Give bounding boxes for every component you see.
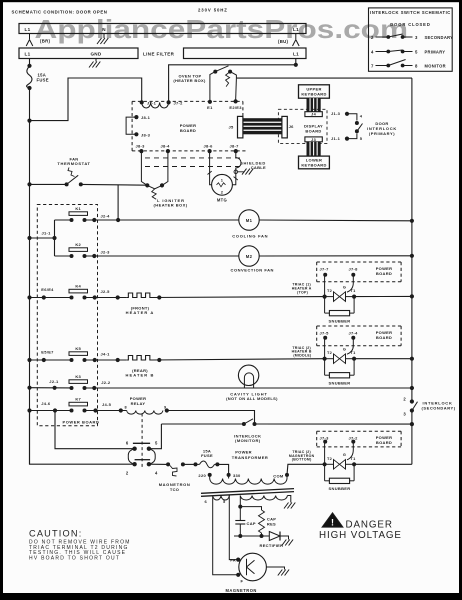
fan thermostat switch	[57, 157, 90, 187]
svg-text:GND: GND	[90, 52, 101, 57]
lamp cavity light	[226, 365, 278, 401]
svg-text:(PRIMARY): (PRIMARY)	[369, 131, 395, 136]
svg-text:THERMOSTAT: THERMOSTAT	[57, 161, 90, 166]
motor M1 cooling fan	[232, 210, 268, 239]
svg-text:(SECONDARY): (SECONDARY)	[422, 406, 456, 411]
snubber for triac 2 heater B	[325, 359, 355, 386]
thermal cutout MAGNETRON TCO	[159, 462, 191, 492]
display board dashed box	[278, 109, 327, 143]
caution text block	[29, 529, 131, 562]
svg-text:J1-1: J1-1	[42, 231, 52, 236]
svg-text:!: !	[331, 517, 334, 527]
igniter wires from J8-3 and J8-4	[141, 151, 147, 185]
svg-text:E6/E4: E6/E4	[41, 287, 54, 292]
wire M1 to right bus	[259, 219, 412, 222]
wire left bus J1-1 feeder	[30, 237, 55, 239]
fuse 15A (HV)	[200, 461, 215, 468]
svg-text:J2-1: J2-1	[49, 379, 59, 384]
svg-text:J7-7: J7-7	[320, 266, 330, 271]
svg-text:G: G	[343, 346, 346, 351]
resistor heater A (front)	[126, 293, 152, 298]
svg-text:(NOT ON ALL MODELS): (NOT ON ALL MODELS)	[226, 396, 278, 401]
danger high voltage warning	[319, 513, 402, 541]
svg-text:(MONITOR): (MONITOR)	[235, 438, 261, 443]
svg-text:BOARD: BOARD	[376, 335, 392, 340]
lower keyboard ribbon cable	[307, 142, 321, 156]
svg-text:SNUBBER: SNUBBER	[329, 380, 351, 385]
svg-text:(HEATER BOX): (HEATER BOX)	[173, 78, 206, 83]
wire K3 to cavity light	[85, 387, 412, 389]
svg-text:HEATER B: HEATER B	[126, 373, 155, 378]
terminal (BR) with connector arrow	[29, 34, 31, 40]
node J8-4	[166, 149, 170, 153]
svg-text:CAUTION:: CAUTION:	[29, 529, 83, 539]
svg-text:5: 5	[415, 50, 418, 55]
wire left bus to igniter (fan row)	[30, 183, 67, 185]
display ribbon cable J5-J6	[229, 116, 295, 137]
svg-text:J8-3: J8-3	[141, 132, 151, 137]
svg-text:8: 8	[125, 405, 127, 409]
line filter box left section L1-GND	[19, 48, 138, 59]
svg-text:G: G	[343, 284, 346, 289]
wire filament 6 to magnetron F	[213, 496, 239, 575]
resistor CAP RES	[240, 507, 276, 536]
transformer filament winding 6-5	[205, 496, 230, 505]
wire heater A to triac 1	[152, 296, 324, 299]
wire triac 3 to right bus corner	[354, 463, 412, 465]
svg-text:J7-3: J7-3	[320, 436, 330, 441]
terminal (BU) with connector arrow	[295, 34, 297, 40]
node J7-2	[167, 100, 171, 104]
interlock schematic row PRIMARY pins 4-5	[371, 50, 445, 55]
svg-text:3: 3	[415, 35, 418, 40]
svg-text:J6: J6	[289, 124, 295, 129]
bus bar L1-N-L1 (line input)	[19, 24, 306, 34]
svg-text:6: 6	[126, 441, 129, 446]
triac triac 1 heater A	[323, 275, 357, 302]
interlock (monitor) switch	[161, 419, 261, 443]
wire J1-1 vertical to K1 K2	[54, 220, 56, 256]
right bus vertical	[411, 78, 413, 401]
wire K2 to J2-3	[85, 255, 239, 257]
wire fuse to transformer 330 tap	[217, 464, 228, 475]
relay K4 contact	[69, 289, 88, 293]
svg-text:8: 8	[415, 64, 418, 69]
relay K3 contact	[69, 380, 88, 384]
nodes J8-1 J8-3 with jumper	[126, 115, 151, 137]
svg-text:J4-6: J4-6	[41, 401, 51, 406]
svg-text:K7: K7	[75, 397, 81, 402]
svg-text:K2: K2	[75, 242, 81, 247]
resistor heater B (rear)	[126, 356, 152, 361]
wire left bus to relay contact 2	[30, 411, 135, 465]
svg-text:J4: J4	[311, 113, 316, 117]
fuse 15A (left bus)	[27, 66, 32, 88]
svg-text:J8-6: J8-6	[204, 144, 214, 149]
svg-text:DANGER: DANGER	[346, 519, 393, 530]
svg-text:MONITOR: MONITOR	[425, 64, 446, 69]
svg-text:L1: L1	[25, 27, 31, 32]
snubber for triac 3 magnetron	[325, 464, 355, 491]
power board dashed box J7-5 J7-4	[317, 326, 401, 346]
interlock switch schematic box	[369, 8, 453, 71]
wire left bus to power board J7-1	[30, 78, 142, 121]
svg-text:J3: J3	[311, 138, 316, 142]
wire left bus to K4	[30, 297, 72, 299]
thermostat OVEN TOP (HEATER BOX)	[173, 66, 236, 102]
transformer primary winding	[210, 479, 287, 485]
right bus lower section	[411, 411, 413, 465]
svg-text:COOLING FAN: COOLING FAN	[232, 234, 268, 239]
svg-text:J2-3: J2-3	[101, 250, 111, 255]
inductor line-filter coil J7-1 to J7-2	[142, 102, 169, 108]
svg-text:F: F	[241, 579, 244, 584]
svg-text:(HEATER BOX): (HEATER BOX)	[154, 203, 188, 208]
wire monitor to right bus	[255, 423, 412, 425]
svg-text:230V 50HZ: 230V 50HZ	[198, 7, 228, 12]
svg-text:AppliancePartsPros.com: AppliancePartsPros.com	[35, 16, 409, 44]
svg-text:FUSE: FUSE	[201, 453, 213, 458]
turntable motor MTG	[212, 174, 233, 202]
svg-text:RELAY: RELAY	[131, 401, 146, 406]
lower keyboard box	[299, 156, 330, 169]
relay K7 contact	[69, 402, 88, 406]
wire K4 to heater A	[85, 297, 127, 299]
shielded cable wire J8-7 to motor	[232, 151, 241, 185]
svg-text:KEYBOARD: KEYBOARD	[301, 92, 326, 97]
svg-text:J7-1: J7-1	[147, 100, 157, 105]
svg-text:J8-7: J8-7	[230, 144, 240, 149]
svg-text:RES: RES	[267, 521, 276, 526]
svg-text:4: 4	[371, 50, 374, 55]
capacitor CAP	[235, 507, 256, 536]
svg-text:J7-4: J7-4	[349, 330, 359, 335]
line filter box right section L1	[184, 48, 307, 59]
svg-text:SNUBBER: SNUBBER	[329, 318, 351, 323]
upper keyboard box	[299, 85, 330, 98]
power board relay dashed box	[37, 205, 97, 426]
connector J4	[305, 112, 322, 117]
interlock (secondary) switch pins 2-3	[403, 396, 455, 416]
svg-text:(BU): (BU)	[278, 39, 289, 44]
svg-text:(BOTTOM): (BOTTOM)	[292, 457, 312, 461]
svg-text:PRIMARY: PRIMARY	[425, 50, 446, 55]
ground at N	[103, 34, 105, 39]
left bus wire	[29, 88, 31, 464]
triac triac 2 heater B	[323, 338, 357, 364]
svg-text:SNUBBER: SNUBBER	[329, 486, 351, 491]
door interlock (primary) switch pins 4-5	[347, 113, 397, 141]
transformer HV winding	[240, 496, 287, 501]
svg-text:INTERLOCK SWITCH SCHEMATIC: INTERLOCK SWITCH SCHEMATIC	[370, 10, 451, 15]
magnetron	[226, 553, 267, 593]
svg-text:T2: T2	[327, 288, 333, 293]
svg-text:T1: T1	[351, 350, 357, 355]
interlock schematic row MONITOR pins 7-8	[371, 60, 446, 69]
svg-text:CONVECTION FAN: CONVECTION FAN	[231, 267, 274, 272]
svg-text:M1: M1	[246, 218, 253, 223]
svg-text:J2-4: J2-4	[101, 214, 111, 219]
svg-text:T1: T1	[351, 456, 357, 461]
node J8-6	[208, 149, 212, 153]
relay K2 contact	[69, 248, 88, 252]
svg-text:K5: K5	[75, 346, 81, 351]
svg-text:J4-1: J4-1	[101, 352, 111, 357]
wire contact 5 up to monitor row	[149, 424, 162, 449]
wire L1 from line filter down	[295, 59, 297, 65]
svg-text:T2: T2	[327, 456, 333, 461]
wire cap bottom row	[234, 535, 269, 537]
wire triac 1 to right bus	[354, 295, 412, 297]
svg-text:SECONDARY: SECONDARY	[425, 35, 454, 40]
wire M2 to right bus	[259, 255, 412, 257]
svg-text:J7-2: J7-2	[174, 100, 184, 105]
relay K1 contact	[69, 212, 88, 216]
wire COM riser to triac 3	[287, 464, 325, 475]
svg-text:J7-8: J7-8	[349, 266, 359, 271]
wire left bus to K3	[30, 387, 72, 389]
svg-text:T1: T1	[351, 288, 357, 293]
node J7-1	[140, 100, 144, 104]
node J8-3 (bottom row)	[139, 149, 143, 153]
rectifier ground	[280, 536, 289, 540]
svg-text:TRANSFORMER: TRANSFORMER	[232, 455, 269, 460]
wire filament 5 to magnetron FA	[229, 496, 238, 560]
svg-text:N: N	[102, 27, 106, 32]
svg-text:M2: M2	[246, 254, 253, 259]
svg-text:HEATER A: HEATER A	[126, 310, 155, 315]
wire J8-6 to turntable motor	[210, 151, 212, 185]
svg-text:SCHEMATIC CONDITION: DOOR OPEN: SCHEMATIC CONDITION: DOOR OPEN	[12, 9, 108, 14]
HV winding ground	[287, 496, 290, 503]
upper keyboard ribbon cable	[307, 98, 321, 112]
svg-text:2: 2	[371, 35, 374, 40]
motor M2 convection fan	[231, 246, 274, 272]
power relay contacts 6-5 / 2-4	[126, 414, 158, 476]
svg-text:5: 5	[155, 441, 158, 446]
svg-text:L1: L1	[25, 52, 31, 57]
svg-text:7: 7	[371, 64, 374, 69]
svg-text:K3: K3	[75, 374, 81, 379]
svg-text:MAGNETRON: MAGNETRON	[226, 588, 257, 593]
svg-text:J2-2: J2-2	[101, 380, 111, 385]
wire to J7-2	[169, 65, 296, 103]
svg-text:J1-1: J1-1	[331, 136, 341, 141]
svg-text:DOOR CLOSED: DOOR CLOSED	[390, 22, 430, 27]
svg-text:RECTIFIER: RECTIFIER	[260, 543, 284, 548]
wire left bus to K5	[30, 359, 72, 361]
svg-text:J1-3: J1-3	[331, 111, 341, 116]
snubber for triac 1 heater A	[325, 297, 355, 324]
heater box dashed boundary lines	[145, 157, 240, 159]
transformer primary taps 220 330 COM	[198, 473, 289, 479]
node E1	[208, 100, 212, 104]
igniter L IGNITER (HEATER BOX)	[145, 183, 188, 207]
wire J4 vertical to relay contact 6	[55, 411, 135, 449]
shield ground tap	[234, 169, 253, 175]
svg-text:MTG: MTG	[217, 198, 227, 203]
svg-text:L1: L1	[293, 52, 299, 57]
svg-text:HV BOARD TO SHORT OUT: HV BOARD TO SHORT OUT	[29, 556, 120, 562]
ground at GND	[95, 59, 97, 62]
svg-text:(TOP): (TOP)	[297, 290, 308, 294]
wire thermostat to right bus	[236, 77, 412, 79]
node E2/E3	[234, 99, 238, 103]
wire TCO to fuse	[183, 463, 196, 465]
svg-text:(MIDDLE): (MIDDLE)	[293, 353, 311, 357]
svg-text:330: 330	[233, 473, 241, 478]
svg-text:(BR): (BR)	[40, 39, 51, 44]
wire triac 2 to right bus	[354, 358, 412, 360]
power board dashed box J7-3 J7-2	[317, 431, 401, 447]
svg-text:TCO: TCO	[170, 487, 179, 492]
svg-text:POWER BOARD: POWER BOARD	[63, 419, 100, 424]
svg-text:2: 2	[403, 396, 406, 401]
svg-text:K4: K4	[75, 284, 81, 289]
svg-text:G: G	[343, 452, 346, 457]
svg-text:LINE FILTER: LINE FILTER	[143, 52, 175, 57]
wire HV winding to cap node	[239, 496, 241, 507]
power board dashed box J7-7 J7-8	[317, 262, 401, 282]
svg-text:L1: L1	[293, 27, 299, 32]
power board (top) dashed outline	[132, 101, 248, 150]
svg-text:220: 220	[198, 473, 206, 478]
svg-text:J7-5: J7-5	[320, 330, 330, 335]
wire coil to monitor node	[167, 411, 255, 425]
svg-text:E2/E3: E2/E3	[229, 105, 242, 110]
wire K7 to power relay coil	[85, 410, 127, 412]
interlock schematic row SECONDARY pins 2-3	[371, 34, 453, 40]
connector J3	[305, 137, 322, 142]
svg-text:BOARD: BOARD	[376, 271, 392, 276]
svg-text:2: 2	[126, 470, 129, 475]
svg-text:POWER: POWER	[235, 450, 252, 455]
svg-text:BOARD: BOARD	[180, 128, 196, 133]
wire heater B to triac 2	[152, 359, 324, 360]
svg-text:BOARD: BOARD	[376, 440, 392, 445]
svg-text:CAP: CAP	[247, 521, 256, 526]
svg-text:K1: K1	[75, 206, 81, 211]
svg-text:COM: COM	[273, 473, 284, 478]
svg-text:4: 4	[155, 470, 158, 475]
svg-text:E1: E1	[207, 105, 213, 110]
svg-text:BOARD: BOARD	[305, 128, 321, 133]
wire K1 to J2-4	[85, 219, 239, 221]
svg-text:J2-5: J2-5	[101, 289, 111, 294]
power relay coil	[125, 396, 169, 414]
node J8-7	[234, 149, 238, 153]
svg-text:J8-4: J8-4	[161, 143, 171, 148]
svg-text:T2: T2	[327, 350, 333, 355]
magnetron ground	[266, 567, 284, 570]
wire left bus to K7	[30, 410, 72, 412]
transformer core	[201, 489, 294, 494]
svg-text:FUSE: FUSE	[37, 78, 49, 83]
svg-text:J4-5: J4-5	[102, 402, 112, 407]
svg-text:J8-3: J8-3	[136, 143, 146, 148]
svg-text:J5: J5	[229, 125, 235, 130]
rectifier diode	[260, 532, 284, 548]
svg-text:E5/E7: E5/E7	[41, 350, 54, 355]
left bus wire L1 vertical	[29, 59, 31, 67]
svg-text:HIGH VOLTAGE: HIGH VOLTAGE	[319, 530, 402, 541]
wire fan row branch down to J2-4 node	[117, 185, 119, 220]
wire contact 4 to TCO	[149, 463, 168, 465]
relay K5 contact	[69, 352, 88, 356]
svg-text:3: 3	[403, 411, 406, 416]
svg-text:FA: FA	[230, 557, 236, 562]
svg-text:KEYBOARD: KEYBOARD	[301, 162, 326, 167]
svg-text:J8-1: J8-1	[141, 115, 151, 120]
triac triac 3 magnetron	[323, 442, 357, 470]
wire K5 to heater B	[85, 359, 127, 361]
